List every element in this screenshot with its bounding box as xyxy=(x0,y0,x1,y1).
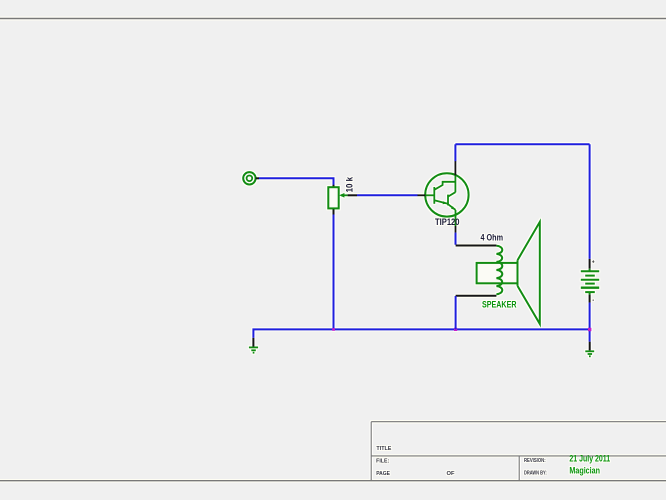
svg-text:Magician: Magician xyxy=(569,465,600,475)
wire input to potentiometer top xyxy=(259,178,334,185)
svg-text:4 Ohm: 4 Ohm xyxy=(481,232,504,242)
svg-text:REVISION:: REVISION: xyxy=(524,458,546,464)
transistor Q1 TIP120 (darlington) xyxy=(418,161,469,233)
svg-text:DRAWN BY:: DRAWN BY: xyxy=(524,470,547,476)
svg-text:-: - xyxy=(592,298,594,304)
wire bottom rail xyxy=(253,329,589,338)
potentiometer R1 10k xyxy=(328,185,357,215)
svg-text:TIP120: TIP120 xyxy=(435,217,460,227)
junction at speaker return / bottom rail xyxy=(454,328,457,331)
wire battery bottom to ground xyxy=(589,303,591,342)
ground (left) xyxy=(249,338,258,353)
battery B1 xyxy=(581,259,599,304)
wire collector riser xyxy=(454,144,456,161)
svg-text:+: + xyxy=(592,260,595,266)
wire emitter drop xyxy=(455,233,457,245)
speaker SP1 xyxy=(456,222,540,324)
svg-text:OF: OF xyxy=(447,471,455,477)
svg-text:10 k: 10 k xyxy=(344,176,354,192)
input connector J1 xyxy=(243,172,259,184)
svg-text:21 July 2011: 21 July 2011 xyxy=(569,454,610,464)
svg-text:TITLE: TITLE xyxy=(376,446,392,452)
junction at battery drop / bottom rail xyxy=(588,328,591,331)
junction at potentiometer / bottom rail xyxy=(332,328,335,331)
wire top rail xyxy=(455,143,589,145)
svg-text:SPEAKER: SPEAKER xyxy=(482,300,517,311)
svg-text:FILE:: FILE: xyxy=(376,458,389,464)
wire potentiometer bottom to ground rail xyxy=(333,215,335,329)
title block xyxy=(371,422,666,481)
svg-text:PAGE: PAGE xyxy=(376,471,390,477)
wire battery top drop xyxy=(589,144,591,259)
wire speaker return drop xyxy=(455,296,457,329)
ground (right, battery negative) xyxy=(585,342,594,357)
wire potentiometer wiper to transistor base xyxy=(357,194,418,196)
